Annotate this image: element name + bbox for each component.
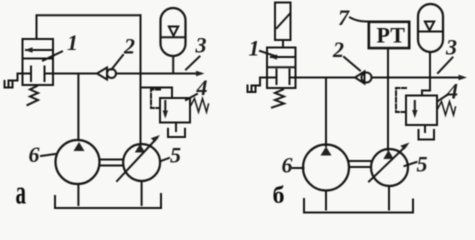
svg-text:4: 4 (196, 75, 208, 100)
shaft between pumps (100, 159, 124, 161)
check valve 2 seat (97, 68, 107, 80)
pressure relay PT box 7 (369, 22, 409, 48)
outlet arrowhead (196, 71, 205, 77)
pump 6 triangle (74, 142, 85, 151)
pump 6 suction line (77, 184, 79, 205)
valve flow arrow (271, 56, 294, 58)
pump 5 variable arrow (117, 138, 157, 181)
leader to 4 (right) (438, 95, 447, 101)
accumulator stem (right) (429, 52, 431, 78)
tank (reservoir) (55, 194, 161, 208)
drain tank symbol (right) (248, 86, 256, 93)
leader to 6 (right) (292, 167, 304, 169)
valve U1 position divider (23, 58, 54, 60)
svg-text:5: 5 (170, 143, 181, 168)
leader to 2 (right) (344, 57, 360, 71)
branch down to pump 6 (right) (325, 78, 327, 147)
accumulator 3 separator line (161, 36, 185, 38)
accumulator 3 stem (172, 56, 174, 74)
tank (reservoir, right) (304, 199, 413, 213)
leader to 7 (350, 18, 369, 22)
svg-text:6: 6 (282, 153, 293, 178)
valve 1 body (right) (267, 48, 296, 89)
leader to 5 (161, 158, 169, 161)
relief valve 4 drain stem (right) (424, 125, 426, 132)
pump 6 circle (56, 140, 100, 184)
leader to 1 (right) (260, 51, 278, 57)
main pressure line (right) (296, 77, 356, 79)
relief valve 4 flow arrow (right) (414, 101, 416, 114)
valve divider (267, 66, 296, 68)
valve U1 spring (28, 86, 39, 105)
pump 5 suction line (141, 181, 143, 205)
wire: top bypass line (37, 15, 141, 39)
relief valve 4 pilot line (dashed) (151, 90, 160, 109)
relief valve 4 spring (190, 99, 209, 113)
pump 5 triangle (right) (383, 150, 393, 159)
valve spring (right) (272, 90, 284, 108)
svg-text:1: 1 (67, 30, 78, 55)
check valve 2 ball (107, 69, 116, 78)
wire: vertical line from top line down to pump 5 (140, 15, 142, 145)
pump 5 circle (right) (371, 149, 408, 186)
valve blocked ports (276, 70, 278, 85)
accumulator 3 shell (right) (418, 4, 443, 52)
svg-text:3: 3 (445, 35, 457, 60)
accumulator separator line (right) (419, 31, 443, 33)
valve U1 drain line (9, 74, 23, 87)
relief valve 4 body (right) (406, 96, 437, 126)
relief valve 4 tank symbol (168, 129, 185, 137)
drain tank symbol (5, 81, 13, 88)
valve U1 body (23, 39, 54, 85)
relief valve 4 tank symbol (right) (419, 130, 435, 140)
valve U1 flow arrow (upper position) (26, 49, 52, 51)
svg-text:2: 2 (332, 37, 344, 62)
pump 5 variable arrow (right) (369, 146, 406, 182)
relief valve 4 feed line (141, 88, 173, 99)
pump 6 suction (right) (325, 191, 327, 210)
relief valve 4 drain stem (175, 123, 177, 132)
relief valve 4 pilot (dashed, right) (396, 88, 406, 112)
svg-text:2: 2 (123, 34, 135, 59)
leader to 3 (right) (438, 58, 453, 74)
svg-text:1: 1 (249, 36, 260, 61)
pump 5 suction (right) (388, 186, 390, 210)
leader to 2 (112, 55, 124, 70)
wire: main pressure line from valve 1 to outlet (53, 73, 97, 75)
leader to 3 (186, 57, 200, 70)
svg-text:б: б (273, 183, 285, 209)
outlet arrowhead (right) (459, 75, 468, 81)
svg-text:5: 5 (417, 152, 428, 177)
accumulator gas triangle (right) (425, 22, 434, 31)
PT vertical line to main and pump 5 (387, 48, 389, 150)
wire: branch down to pump 6 (77, 74, 79, 141)
svg-text:3: 3 (195, 33, 207, 58)
leader to 6 (41, 154, 55, 156)
pump 5 circle (123, 144, 160, 181)
accumulator 3 shell (161, 8, 186, 56)
svg-text:6: 6 (29, 142, 40, 167)
check valve 2 ball (right) (362, 73, 372, 83)
shaft between pumps (right) (349, 160, 371, 162)
pump 5 triangle (135, 144, 145, 153)
valve drain line (right) (252, 78, 268, 91)
relief valve 4 spring (right) (437, 102, 456, 116)
leader to 1 (43, 52, 62, 61)
valve U1 blocked ports (lower position) (30, 67, 32, 82)
accumulator 3 gas triangle (169, 27, 178, 36)
solenoid of valve 1 (275, 3, 291, 41)
svg-text:4: 4 (446, 79, 458, 104)
relief valve 4 body (160, 98, 190, 123)
check valve 2 seat (right) (355, 72, 365, 84)
svg-text:а: а (16, 175, 27, 212)
leader to 4 (186, 94, 197, 100)
relief valve 4 feed line (right) (422, 78, 430, 96)
svg-text:РТ: РТ (377, 23, 406, 48)
relief valve 4 flow arrow (164, 101, 166, 115)
svg-text:7: 7 (338, 5, 350, 30)
pump 6 triangle (right) (321, 147, 332, 156)
pump 6 circle (right) (303, 145, 349, 191)
leader to 5 (right) (405, 162, 417, 166)
